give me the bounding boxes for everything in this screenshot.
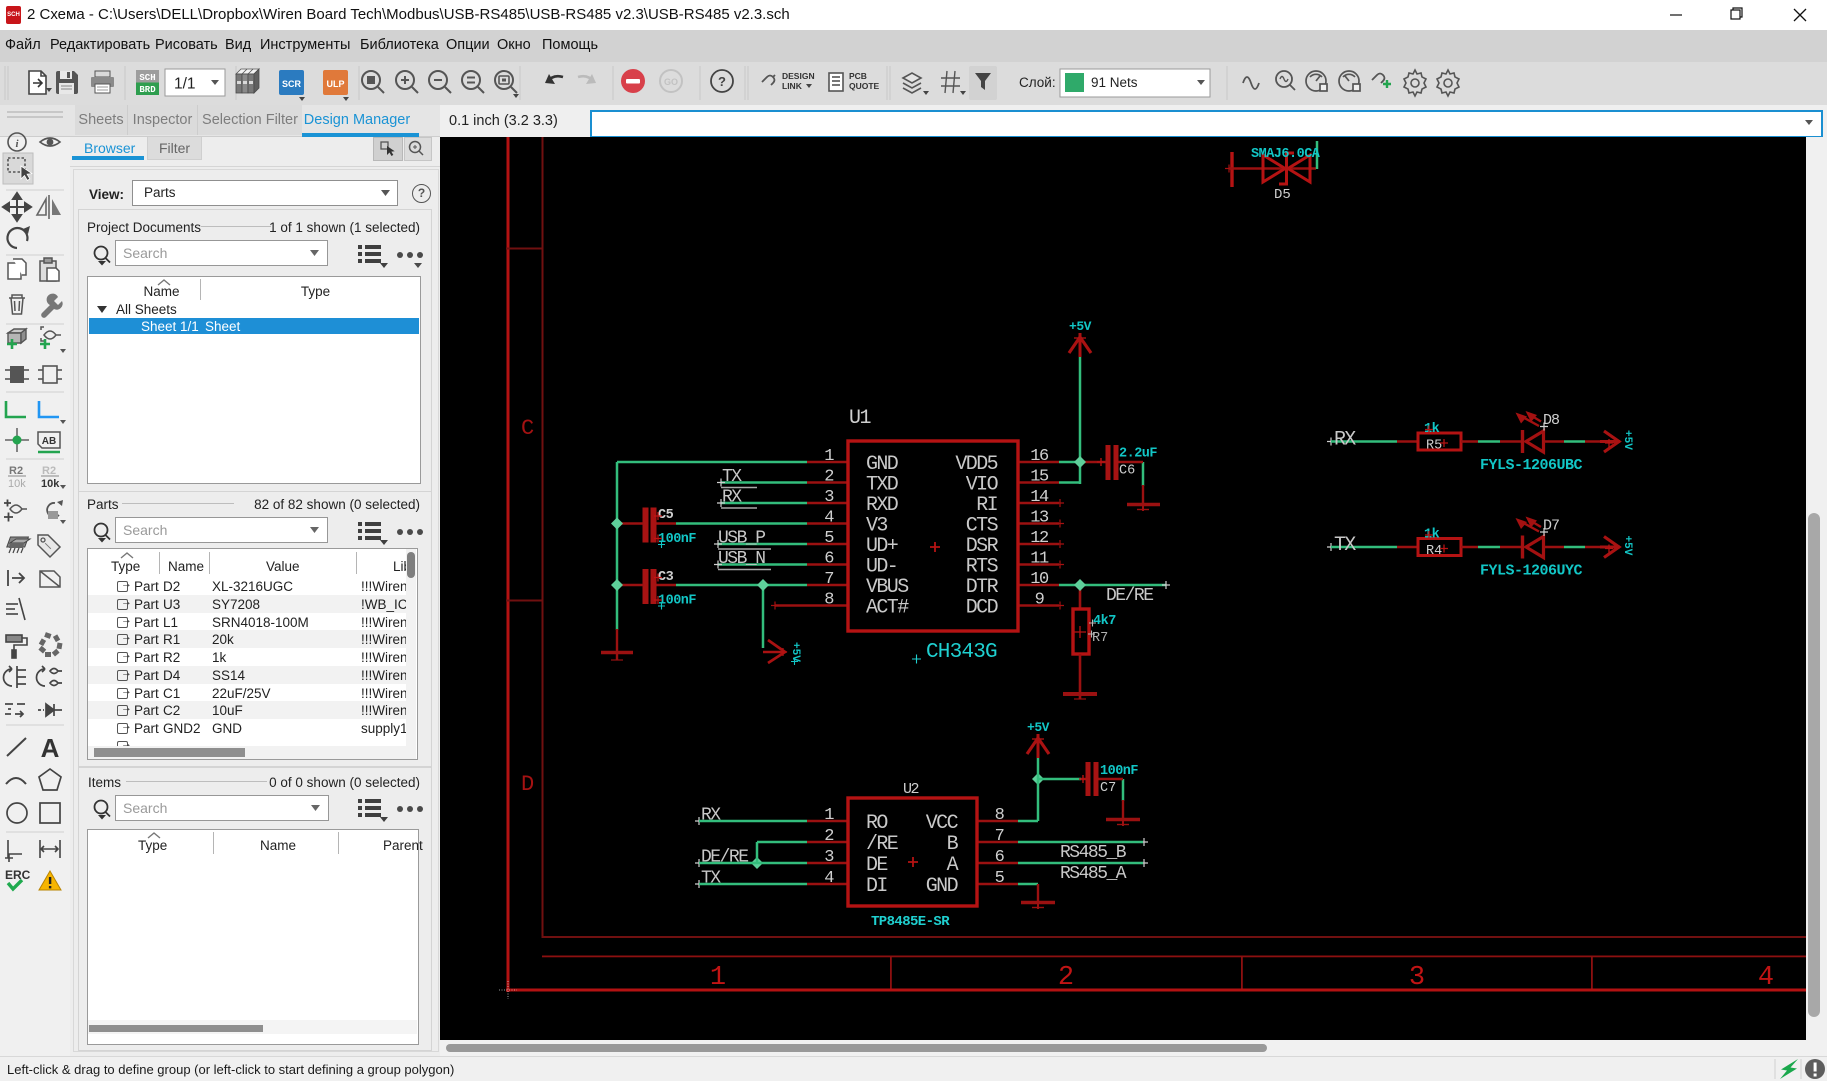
svg-text:1/1: 1/1 [174,76,196,93]
svg-text:DE: DE [866,854,887,877]
svg-text:B: B [947,833,959,856]
svg-text:2.2uF: 2.2uF [1119,447,1157,462]
svg-text:R4: R4 [1426,544,1442,559]
svg-text:TX: TX [701,869,721,889]
svg-text:LINK: LINK [782,81,803,91]
svg-text:CH343G: CH343G [926,641,997,664]
svg-text:D5: D5 [1274,187,1291,203]
svg-text:AB: AB [42,436,56,447]
svg-text:i: i [15,138,19,150]
svg-text:C: C [521,416,534,441]
svg-text:RX: RX [722,488,742,508]
svg-text:ACT#: ACT# [866,597,909,620]
svg-text:VCC: VCC [926,812,959,835]
svg-text:A: A [947,854,959,877]
svg-text:8: 8 [824,591,834,610]
svg-text:DESIGN: DESIGN [782,71,815,81]
svg-text:RO: RO [866,812,887,835]
svg-text:10: 10 [1030,570,1049,589]
svg-text:7: 7 [995,827,1004,846]
svg-text:R2: R2 [42,465,56,477]
svg-text:7: 7 [824,570,833,589]
svg-text:/RE: /RE [866,833,898,856]
svg-text:16: 16 [1030,447,1049,466]
svg-text:+5V: +5V [1027,720,1050,735]
svg-text:3: 3 [1409,963,1425,993]
svg-text:SMAJ6.0CA: SMAJ6.0CA [1251,147,1321,162]
svg-text:10k: 10k [41,478,60,490]
svg-text:5: 5 [995,869,1005,888]
svg-text:D: D [521,772,534,797]
svg-text:2: 2 [1058,963,1074,993]
svg-text:4: 4 [824,509,834,528]
svg-text:TX: TX [722,467,742,487]
svg-text:U1: U1 [849,407,872,430]
svg-text:D8: D8 [1543,412,1560,429]
svg-text:12: 12 [1030,529,1048,548]
svg-text:6: 6 [824,550,834,569]
svg-text:C6: C6 [1119,464,1135,479]
svg-text:4: 4 [824,869,834,888]
svg-text:4: 4 [1758,963,1774,993]
svg-text:R7: R7 [1092,631,1108,646]
svg-text:13: 13 [1030,509,1049,528]
svg-text:DCD: DCD [966,597,998,620]
svg-text:6: 6 [995,848,1005,867]
svg-text:PCB: PCB [849,71,867,81]
svg-text:15: 15 [1030,468,1049,487]
svg-text:DE/RE: DE/RE [701,848,748,868]
svg-text:RS485_B: RS485_B [1060,843,1127,863]
svg-text:FYLS-1206UBC: FYLS-1206UBC [1480,457,1583,474]
svg-text:8: 8 [995,806,1005,825]
svg-text:GO: GO [664,77,678,87]
svg-text:DI: DI [866,875,887,898]
svg-text:GND: GND [926,875,958,898]
svg-text:1: 1 [824,806,834,825]
svg-text:+5V: +5V [1621,430,1633,450]
svg-text:R2: R2 [9,465,23,477]
svg-text:TX: TX [1334,534,1356,557]
svg-text:?: ? [718,74,726,89]
svg-text:USB_N: USB_N [718,549,765,569]
svg-text:C7: C7 [1100,781,1116,796]
svg-text:2: 2 [824,827,833,846]
svg-text:DE/RE: DE/RE [1106,586,1153,606]
svg-text:FYLS-1206UYC: FYLS-1206UYC [1480,563,1583,580]
svg-text:U2: U2 [903,781,919,798]
svg-text:100nF: 100nF [1100,764,1138,779]
svg-text:91 Nets: 91 Nets [1091,75,1138,90]
svg-text:Слой:: Слой: [1019,75,1056,90]
svg-text:3: 3 [824,848,834,867]
svg-text:ULP: ULP [327,79,345,89]
svg-text:1: 1 [824,447,834,466]
svg-text:A: A [41,733,60,763]
svg-text:10k: 10k [8,478,26,490]
svg-text:SCR: SCR [282,79,302,89]
svg-text:5: 5 [824,529,834,548]
svg-text:RS485_A: RS485_A [1060,864,1127,884]
svg-text:USB_P: USB_P [718,529,765,549]
svg-text:11: 11 [1030,550,1049,569]
svg-text:14: 14 [1030,488,1049,507]
svg-text:+5V: +5V [1621,536,1633,556]
svg-text:9: 9 [1035,591,1045,610]
svg-text:SCH: SCH [139,73,155,83]
svg-text:3: 3 [824,488,834,507]
svg-text:2: 2 [824,468,833,487]
svg-text:QUOTE: QUOTE [849,81,880,91]
svg-text:RX: RX [701,806,721,826]
svg-text:D7: D7 [1543,518,1559,535]
svg-text:BRD: BRD [139,85,156,95]
svg-text:4k7: 4k7 [1093,614,1116,629]
svg-text:RX: RX [1334,429,1356,452]
svg-text:R5: R5 [1426,439,1442,454]
svg-text:ERC: ERC [5,868,31,882]
svg-text:+5V: +5V [1069,319,1092,334]
svg-text:1: 1 [710,963,726,993]
svg-text:TP8485E-SR: TP8485E-SR [871,914,950,930]
